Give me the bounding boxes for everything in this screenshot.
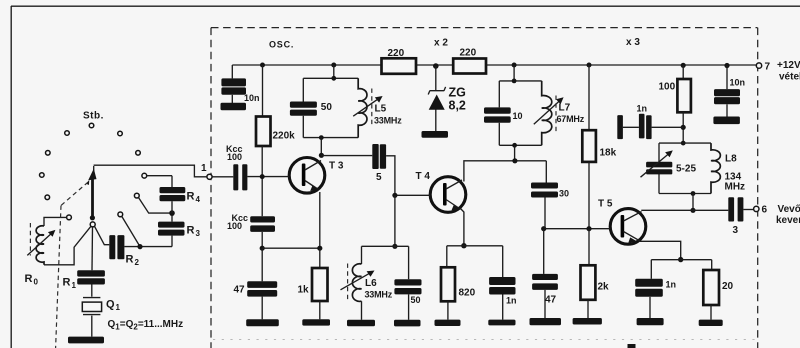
ground (under 2k) — [573, 318, 602, 325]
label Stb. — [83, 111, 104, 122]
svg-text:5: 5 — [376, 172, 382, 183]
inductor L7 67MHz — [534, 81, 585, 145]
wire 220k to T3 base node — [261, 146, 263, 216]
inductor L6 33MHz — [341, 246, 393, 319]
node rail junction at L5 tank — [331, 63, 336, 68]
svg-text:10n: 10n — [244, 93, 260, 103]
node rail junction at 10n — [724, 63, 729, 68]
switch contact R3 — [134, 193, 172, 213]
wire emitter node — [447, 245, 503, 247]
ground (under 1k) — [302, 319, 330, 325]
svg-text:3: 3 — [196, 229, 201, 238]
svg-text:Q1=Q2=11...MHz: Q1=Q2=11...MHz — [108, 319, 184, 332]
wire 18k to T5 base node — [588, 162, 590, 229]
capacitor 5 — [372, 144, 386, 183]
switch contact (unused) — [45, 195, 50, 200]
wire T5 base node — [544, 228, 611, 230]
wire +12V supply rail — [232, 64, 756, 66]
ground (under Q1) — [68, 337, 104, 344]
svg-text:18k: 18k — [600, 148, 617, 159]
svg-text:33MHz: 33MHz — [374, 116, 402, 126]
switch position dot 1 — [65, 131, 70, 136]
node T3 collector / cap 5 — [319, 153, 324, 158]
wire L8 tank loop — [659, 143, 711, 193]
trimmer capacitor 5-25 — [641, 150, 697, 177]
svg-text:2: 2 — [135, 258, 140, 267]
crystal Q1 — [82, 298, 120, 337]
label Vevő — [778, 204, 800, 215]
svg-text:47: 47 — [234, 285, 246, 296]
node base/2k — [586, 226, 591, 231]
node T4 base branch — [392, 193, 397, 198]
wire L6 tank top — [362, 245, 409, 247]
capacitor 50 (L5 tank) — [290, 102, 332, 116]
ground (under L6) — [347, 320, 375, 327]
dashed boundary of oscillator module — [211, 28, 758, 348]
svg-text:1n: 1n — [637, 104, 648, 114]
svg-text:220: 220 — [388, 48, 405, 59]
wire top (wiper to terminal 1) — [94, 165, 207, 177]
ground (under 10n left) — [221, 103, 247, 110]
wire L5 tank loop — [303, 65, 358, 138]
svg-text:67MHz: 67MHz — [557, 114, 585, 124]
wire T3 emitter — [319, 192, 321, 248]
svg-text:33MHz: 33MHz — [365, 290, 393, 300]
transistor T4 — [416, 171, 466, 212]
switch contact R4 — [142, 173, 172, 178]
capacitor R3 — [158, 213, 201, 247]
transistor T3 — [289, 158, 344, 194]
svg-text:2k: 2k — [598, 282, 610, 293]
svg-text:T 3: T 3 — [329, 161, 344, 172]
svg-text:1n: 1n — [666, 280, 677, 290]
svg-text:T 4: T 4 — [416, 171, 431, 182]
node T3 emitter junction left — [260, 246, 265, 251]
capacitor 1n (T4 emitter) — [489, 246, 516, 320]
svg-text:R: R — [187, 191, 195, 203]
wire emitter node — [651, 259, 711, 261]
svg-text:1: 1 — [72, 281, 77, 290]
terminal 6 — [754, 205, 768, 216]
capacitor 3 (output coupling) — [728, 197, 753, 236]
resistor 820 — [441, 246, 476, 320]
switch position dot 3 — [118, 131, 123, 136]
node L7 tank top — [512, 79, 517, 84]
svg-text:20: 20 — [722, 281, 734, 292]
svg-text:820: 820 — [459, 288, 476, 299]
svg-text:8,2: 8,2 — [449, 99, 466, 113]
wire T5 emitter — [639, 241, 681, 259]
node base/47 — [541, 226, 546, 231]
svg-text:R: R — [187, 225, 195, 237]
zener diode ZG 8,2 — [428, 66, 466, 132]
svg-text:7: 7 — [765, 62, 771, 73]
svg-text:1k: 1k — [298, 285, 310, 296]
svg-text:L7: L7 — [559, 103, 571, 114]
svg-text:100: 100 — [227, 152, 242, 162]
svg-text:OSC.: OSC. — [269, 40, 294, 50]
svg-text:4: 4 — [196, 195, 201, 204]
switch hub — [90, 222, 95, 227]
wire L7 tank loop — [499, 65, 541, 145]
svg-text:T 5: T 5 — [598, 199, 613, 210]
label +12V — [777, 60, 800, 71]
node T3 emitter / 1k — [317, 246, 322, 251]
switch contact R0 — [44, 215, 71, 226]
ground (under 20) — [699, 320, 723, 326]
svg-text:MHz: MHz — [725, 182, 746, 193]
wire T4 emitter — [460, 208, 464, 246]
svg-text:220k: 220k — [273, 131, 296, 142]
resistor 220 (second, x2 stage) — [453, 48, 486, 74]
label Q1=Q2=11...MHz — [108, 319, 184, 332]
capacitor 47 (T5 base) — [532, 229, 558, 318]
capacitor 47 (emitter bypass) — [234, 248, 278, 319]
capacitor Kcc 100 (base bypass) — [227, 213, 275, 248]
svg-text:R: R — [126, 254, 134, 266]
svg-text:6: 6 — [762, 205, 768, 216]
wire 100 to L8 tank — [682, 112, 684, 143]
svg-text:3: 3 — [733, 225, 739, 236]
resistor 220k — [256, 65, 295, 146]
node T3 base junction — [260, 174, 265, 179]
capacitor R4 — [160, 176, 201, 213]
wire hub to R0 branch — [44, 226, 91, 264]
switch contact R2 — [118, 212, 140, 247]
ground (under 820) — [435, 320, 461, 326]
bottom edge mark — [628, 344, 636, 348]
capacitor R2 — [109, 235, 172, 267]
inductor R0 (variable) — [25, 226, 56, 287]
wire L8 tank to T5 collector — [692, 194, 694, 211]
switch position dot 6 — [40, 173, 45, 178]
svg-text:47: 47 — [545, 295, 557, 306]
svg-text:1n: 1n — [506, 296, 517, 306]
svg-text:10n: 10n — [730, 78, 746, 88]
switch position dot 4 — [46, 151, 51, 156]
node R3/R4 junction — [169, 210, 175, 216]
node rail junction at 220k — [260, 63, 265, 68]
resistor 20 — [703, 260, 733, 320]
inductor L5 33MHz — [353, 78, 402, 137]
svg-text:vétel: vétel — [779, 72, 800, 83]
svg-text:50: 50 — [411, 295, 421, 305]
node T5 emitter junction — [678, 257, 683, 262]
capacitor 1n (series, to L8 tank) — [617, 104, 683, 140]
node T5 collector junction — [690, 208, 695, 213]
mechanical link dashes — [30, 182, 87, 348]
wire cap 5 to T4 base — [386, 156, 430, 196]
svg-text:L5: L5 — [375, 104, 387, 115]
wire T4 collector to L7 tank — [464, 145, 546, 181]
label x2 — [434, 38, 448, 49]
resistor 1k — [298, 248, 328, 319]
inductor L8 134MHz — [711, 143, 745, 193]
node wiper junction — [90, 215, 95, 220]
node L8 tank top — [681, 141, 686, 146]
node L7 tank bottom — [512, 143, 517, 148]
terminal 7 — [756, 62, 770, 73]
capacitor R1 — [63, 270, 105, 297]
capacitor 1n (T5 emitter) — [635, 260, 676, 318]
label x3 — [626, 37, 640, 48]
capacitor 10n (right decoupling) — [714, 66, 745, 117]
label vétel — [779, 72, 800, 83]
node R2/R3 junction — [137, 244, 142, 249]
label kever — [776, 215, 800, 226]
node collector wire junction — [512, 158, 517, 163]
svg-text:x 2: x 2 — [434, 38, 448, 49]
node L5 tank top — [331, 76, 336, 81]
frame border left — [10, 6, 12, 348]
resistor 2k — [581, 229, 610, 318]
capacitor 10 (L7 tank) — [484, 107, 523, 122]
resistor 100 — [659, 65, 691, 112]
terminal 1 — [201, 163, 212, 179]
svg-text:1: 1 — [116, 303, 121, 312]
capacitor 10n (left decoupling) — [221, 65, 259, 103]
svg-text:0: 0 — [34, 278, 39, 287]
svg-text:1: 1 — [201, 163, 207, 174]
capacitor 50 (L6 tank) — [394, 246, 421, 319]
transistor T5 — [598, 199, 646, 245]
svg-text:10: 10 — [513, 111, 523, 121]
svg-text:30: 30 — [559, 189, 569, 199]
node 1n junction — [681, 125, 686, 130]
wire base node to L6 tank — [394, 195, 396, 246]
node rail junction at zener — [433, 63, 439, 69]
ground (under 1n T5) — [637, 318, 664, 325]
capacitor 30 — [531, 161, 569, 229]
svg-text:Stb.: Stb. — [83, 111, 104, 122]
node rail junction at 18k — [587, 63, 592, 68]
wire T5 collector to output — [641, 209, 728, 211]
node rail junction at L7 tank — [512, 63, 517, 68]
svg-text:x 3: x 3 — [626, 37, 640, 48]
switch position dot 5 — [136, 151, 141, 156]
switch position dot 2 — [89, 123, 94, 128]
svg-text:Vevő: Vevő — [778, 204, 800, 215]
svg-text:100: 100 — [659, 82, 676, 93]
label OSC. — [269, 40, 294, 50]
svg-text:50: 50 — [321, 102, 333, 113]
resistor 18k — [582, 65, 616, 162]
svg-text:ZG: ZG — [449, 86, 466, 100]
wire collector to cap 5 — [321, 155, 372, 157]
ground (under 1n T4) — [488, 320, 515, 326]
ground (under zener) — [422, 131, 449, 138]
svg-text:+12V: +12V — [777, 60, 800, 71]
frame border top — [11, 5, 800, 7]
wire T3 collector — [320, 138, 322, 157]
switch wiper arm — [86, 166, 97, 218]
node rail junction at 100 — [681, 63, 686, 68]
svg-text:220: 220 — [460, 48, 477, 59]
resistor 220 (first, x2 stage) — [382, 48, 417, 74]
ground (under 47 osc) — [246, 319, 279, 326]
svg-text:L6: L6 — [365, 278, 377, 289]
ground (under 47) — [530, 318, 562, 325]
node T4 emitter junction — [461, 243, 466, 248]
svg-text:100: 100 — [227, 221, 242, 231]
capacitor Kcc 100 (input coupling) — [212, 144, 289, 190]
wire hub to R1 — [91, 227, 94, 270]
wire hub to R2 branch — [95, 226, 110, 244]
node L8 tank bottom — [691, 191, 696, 196]
node L5 tank bottom / T3 collector — [319, 135, 324, 140]
svg-text:L8: L8 — [725, 154, 737, 165]
svg-text:5-25: 5-25 — [676, 164, 696, 175]
ground (under 10n right) — [713, 117, 740, 125]
svg-text:R: R — [63, 277, 71, 289]
svg-text:kever: kever — [776, 215, 800, 226]
ground (under 50) — [394, 320, 421, 327]
svg-text:Q: Q — [106, 299, 115, 311]
svg-text:R: R — [25, 273, 33, 285]
node L6 tank junction — [392, 244, 397, 249]
wire T3 emitter node — [262, 247, 320, 249]
